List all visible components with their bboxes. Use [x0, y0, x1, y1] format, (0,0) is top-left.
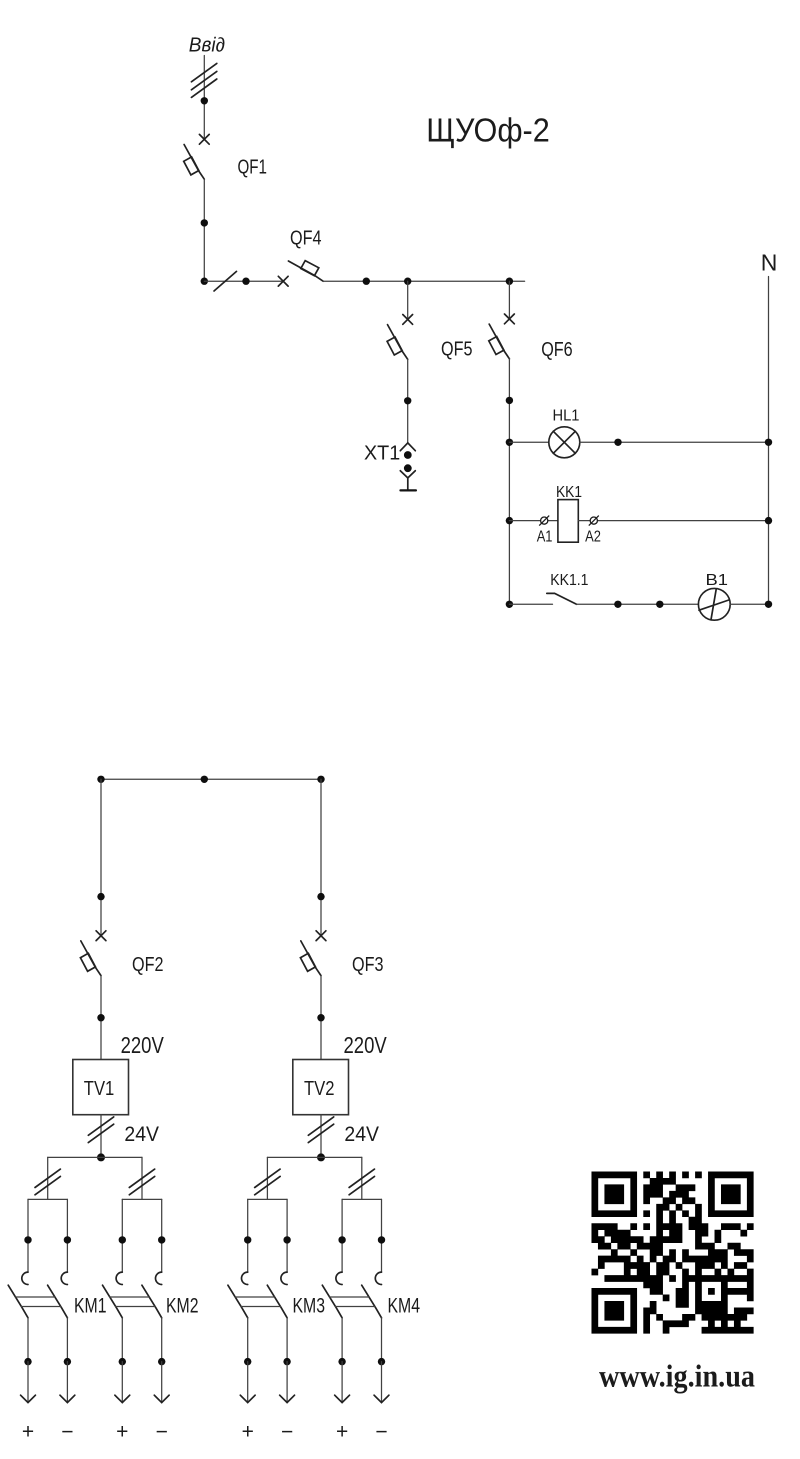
wire: sub-feeder drop at x=267.4	[266, 1157, 268, 1199]
junction dot below contact 7	[338, 1358, 345, 1365]
junction dot below contact 6	[283, 1358, 290, 1365]
junction dot split right	[317, 776, 324, 783]
junction dot above contact 3	[119, 1236, 126, 1243]
lamp HL1	[549, 427, 580, 458]
junction dot HL1 row left	[506, 439, 513, 446]
svg-text:−: −	[375, 1421, 387, 1444]
svg-text:A1: A1	[537, 529, 553, 546]
junction dot above contact 8	[378, 1236, 385, 1243]
breaker QF3	[300, 931, 326, 976]
wire: QF5 down to connector XT1	[407, 359, 409, 442]
wire: bus from main to QF4 contact	[204, 280, 283, 282]
svg-text:KK1.1: KK1.1	[550, 572, 588, 589]
breaker QF2	[80, 931, 106, 976]
contactor pole 2 (KM1)	[48, 1272, 68, 1362]
junction dot: QF5 branch tap	[404, 278, 411, 285]
junction dot below contact 3	[119, 1358, 126, 1365]
svg-text:KK1: KK1	[556, 484, 582, 501]
junction dot branch TV2	[317, 893, 324, 900]
wire: branch TV2 drop	[320, 779, 322, 935]
svg-text:QF4: QF4	[290, 228, 322, 250]
svg-text:24V: 24V	[344, 1122, 379, 1146]
junction dot KK1 row at N	[765, 517, 772, 524]
wire: QF6 down control rail	[508, 359, 510, 605]
wire: pole feeder 8	[381, 1199, 383, 1272]
wire: TV2 secondary header	[267, 1156, 361, 1158]
svg-text:TV1: TV1	[84, 1077, 115, 1100]
wire: bus tap down to QF5	[407, 281, 409, 319]
junction dot below contact 8	[378, 1358, 385, 1365]
transformer TV2	[293, 1060, 349, 1115]
wire: B1 to N	[730, 603, 768, 605]
linkage of contactor KM2	[110, 1297, 155, 1307]
junction dot KK1.1 row at N	[765, 601, 772, 608]
arrow: output feeder 2	[60, 1362, 75, 1403]
junction dot on XT1 wire	[404, 397, 411, 404]
wire: bus from QF4 to right end	[323, 280, 524, 282]
svg-text:QF3: QF3	[352, 954, 384, 976]
junction dot on KK1.1 wire	[614, 601, 621, 608]
wire: QF2 to transformer TV1	[100, 976, 102, 1060]
junction dot below contact 1	[24, 1358, 31, 1365]
svg-text:−: −	[156, 1421, 168, 1444]
junction dot HL1 row at N	[765, 439, 772, 446]
2-wire slash marks on sub-feeder	[255, 1169, 280, 1195]
svg-text:+: +	[242, 1421, 254, 1444]
svg-text:Вві∂: Вві∂	[189, 34, 225, 56]
junction dot below contact 4	[158, 1358, 165, 1365]
junction dot TV2 secondary	[317, 1153, 325, 1161]
contactor pole 3 (KM2)	[103, 1272, 123, 1362]
contactor pole 4 (KM2)	[142, 1272, 162, 1362]
svg-text:HL1: HL1	[553, 408, 580, 425]
svg-text:N: N	[761, 249, 778, 275]
wire: input drop from Ввід to QF1	[203, 56, 205, 140]
wire: KK1 to N	[578, 520, 768, 522]
junction dot KK1.1 row left	[506, 601, 513, 608]
wire: pole feeder 2	[66, 1199, 68, 1272]
arrow: output feeder 8	[374, 1362, 389, 1403]
wire: pole feeder 3	[121, 1199, 123, 1272]
wire: QF3 to transformer TV2	[320, 976, 322, 1060]
junction dot above TV2	[317, 1014, 324, 1021]
arrow: output feeder 6	[280, 1362, 295, 1403]
junction dot above contact 2	[64, 1236, 71, 1243]
svg-text:KM3: KM3	[293, 1295, 326, 1318]
junction dot: QF6 branch tap	[506, 278, 513, 285]
linkage of contactor KM3	[235, 1297, 280, 1307]
svg-text:A2: A2	[585, 529, 601, 546]
wire: QF1 to bus junction	[203, 179, 205, 281]
junction dot above contact 7	[338, 1236, 345, 1243]
wire: to relay KK1	[509, 520, 558, 522]
contactor pole 6 (KM3)	[267, 1272, 287, 1362]
wire: sub-feeder fork bar	[122, 1198, 161, 1200]
junction dot KK1 row left	[506, 517, 513, 524]
2-wire slash marks on TV1 secondary	[88, 1117, 113, 1143]
linkage of contactor KM4	[330, 1297, 375, 1307]
junction dot on HL1 wire	[614, 439, 621, 446]
wire: pole feeder 4	[161, 1199, 163, 1272]
svg-text:−: −	[281, 1421, 293, 1444]
junction dot TV1 secondary	[97, 1153, 105, 1161]
breaker QF5	[387, 315, 413, 360]
wire: sub-feeder drop at x=142	[141, 1157, 143, 1199]
junction dot on input wire	[201, 97, 208, 104]
wire: to lamp HL1	[509, 441, 548, 443]
single-phase slash on bus	[214, 271, 237, 291]
svg-text:ЩУОф-2: ЩУОф-2	[426, 111, 550, 148]
svg-text:QF1: QF1	[238, 156, 268, 178]
svg-text:KM4: KM4	[388, 1295, 421, 1318]
junction dot above contact 5	[244, 1236, 251, 1243]
contact KK1.1 (NO contact with flag)	[547, 593, 577, 604]
junction dot on bus	[363, 278, 370, 285]
arrow: output feeder 4	[154, 1362, 169, 1403]
2-wire slash marks on sub-feeder	[129, 1169, 154, 1195]
arrow: output feeder 1	[21, 1362, 36, 1403]
wire: branch TV1 drop	[100, 779, 102, 935]
terminal A1 (circle-slash)	[539, 516, 549, 526]
junction dot: main bus tee	[201, 278, 208, 285]
junction dot above TV1	[97, 1014, 104, 1021]
junction dot below QF1	[201, 219, 208, 226]
junction dot below QF6	[506, 397, 513, 404]
wire: pole feeder 7	[341, 1199, 343, 1272]
wire: contact KK1.1 to bell B1	[577, 603, 699, 605]
wire: TV2 secondary	[320, 1115, 322, 1158]
svg-text:QF6: QF6	[541, 339, 573, 361]
contactor pole 8 (KM4)	[362, 1272, 382, 1362]
3-phase slash marks on input wire	[191, 63, 216, 97]
svg-text:−: −	[61, 1421, 73, 1444]
2-wire slash marks on sub-feeder	[349, 1169, 374, 1195]
junction dot split middle	[201, 776, 208, 783]
junction dot split left	[97, 776, 104, 783]
wire: sub-feeder drop at x=47.7	[47, 1157, 49, 1199]
svg-text:B1: B1	[706, 572, 729, 589]
2-wire slash marks on TV2 secondary	[308, 1117, 333, 1143]
connector XT1 (plug and socket)	[400, 443, 416, 491]
relay coil KK1 (thermal element box)	[558, 500, 578, 543]
svg-text:QF2: QF2	[132, 954, 164, 976]
terminal A2 (circle-slash)	[589, 516, 599, 526]
junction dot below contact 2	[64, 1358, 71, 1365]
contactor pole 5 (KM3)	[228, 1272, 248, 1362]
QR code (www.ig.in.ua)	[591, 1171, 753, 1333]
bell B1	[698, 588, 730, 620]
breaker QF1	[184, 134, 210, 179]
svg-text:+: +	[116, 1421, 128, 1444]
wire: lamp HL1 to N	[580, 441, 769, 443]
2-wire slash marks on sub-feeder	[35, 1169, 60, 1195]
arrow: output feeder 7	[335, 1362, 350, 1403]
svg-text:KM1: KM1	[74, 1295, 107, 1318]
wire: pole feeder 1	[27, 1199, 29, 1272]
arrow: output feeder 5	[240, 1362, 255, 1403]
junction dot branch TV1	[97, 893, 104, 900]
wire: pole feeder 6	[286, 1199, 288, 1272]
junction dot on bus before QF4	[242, 278, 249, 285]
wire: split header	[101, 778, 321, 780]
junction dot above contact 6	[283, 1236, 290, 1243]
wire: sub-feeder fork bar	[248, 1198, 287, 1200]
svg-text:+: +	[336, 1421, 348, 1444]
wire: TV1 secondary header	[48, 1156, 142, 1158]
junction dot below contact 5	[244, 1358, 251, 1365]
junction dot on KK1.1 wire 2	[656, 601, 663, 608]
wire: sub-feeder fork bar	[342, 1198, 381, 1200]
linkage of contactor KM1	[15, 1297, 60, 1307]
arrow: output feeder 3	[115, 1362, 130, 1403]
svg-text:XT1: XT1	[364, 442, 400, 464]
junction dot above contact 1	[24, 1236, 31, 1243]
contactor pole 1 (KM1)	[8, 1272, 28, 1362]
svg-text:24V: 24V	[124, 1122, 159, 1146]
svg-text:QF5: QF5	[441, 339, 473, 361]
wire: sub-feeder drop at x=361.8	[361, 1157, 363, 1199]
svg-text:220V: 220V	[121, 1032, 165, 1058]
wire: to contact KK1.1	[509, 603, 552, 605]
wire: sub-feeder fork bar	[28, 1198, 67, 1200]
svg-text:www.ig.in.ua: www.ig.in.ua	[599, 1358, 755, 1394]
wire: N rail	[768, 277, 770, 605]
breaker QF6	[489, 314, 515, 359]
svg-text:TV2: TV2	[304, 1077, 335, 1100]
svg-text:220V: 220V	[344, 1032, 388, 1058]
wire: TV1 secondary	[100, 1115, 102, 1158]
svg-text:+: +	[22, 1421, 34, 1444]
wire: bus tap down to QF6	[508, 281, 510, 319]
junction dot above contact 4	[158, 1236, 165, 1243]
transformer TV1	[73, 1060, 129, 1115]
contactor pole 7 (KM4)	[322, 1272, 342, 1362]
svg-text:KM2: KM2	[166, 1295, 199, 1318]
breaker QF4	[278, 261, 323, 287]
wire: pole feeder 5	[247, 1199, 249, 1272]
